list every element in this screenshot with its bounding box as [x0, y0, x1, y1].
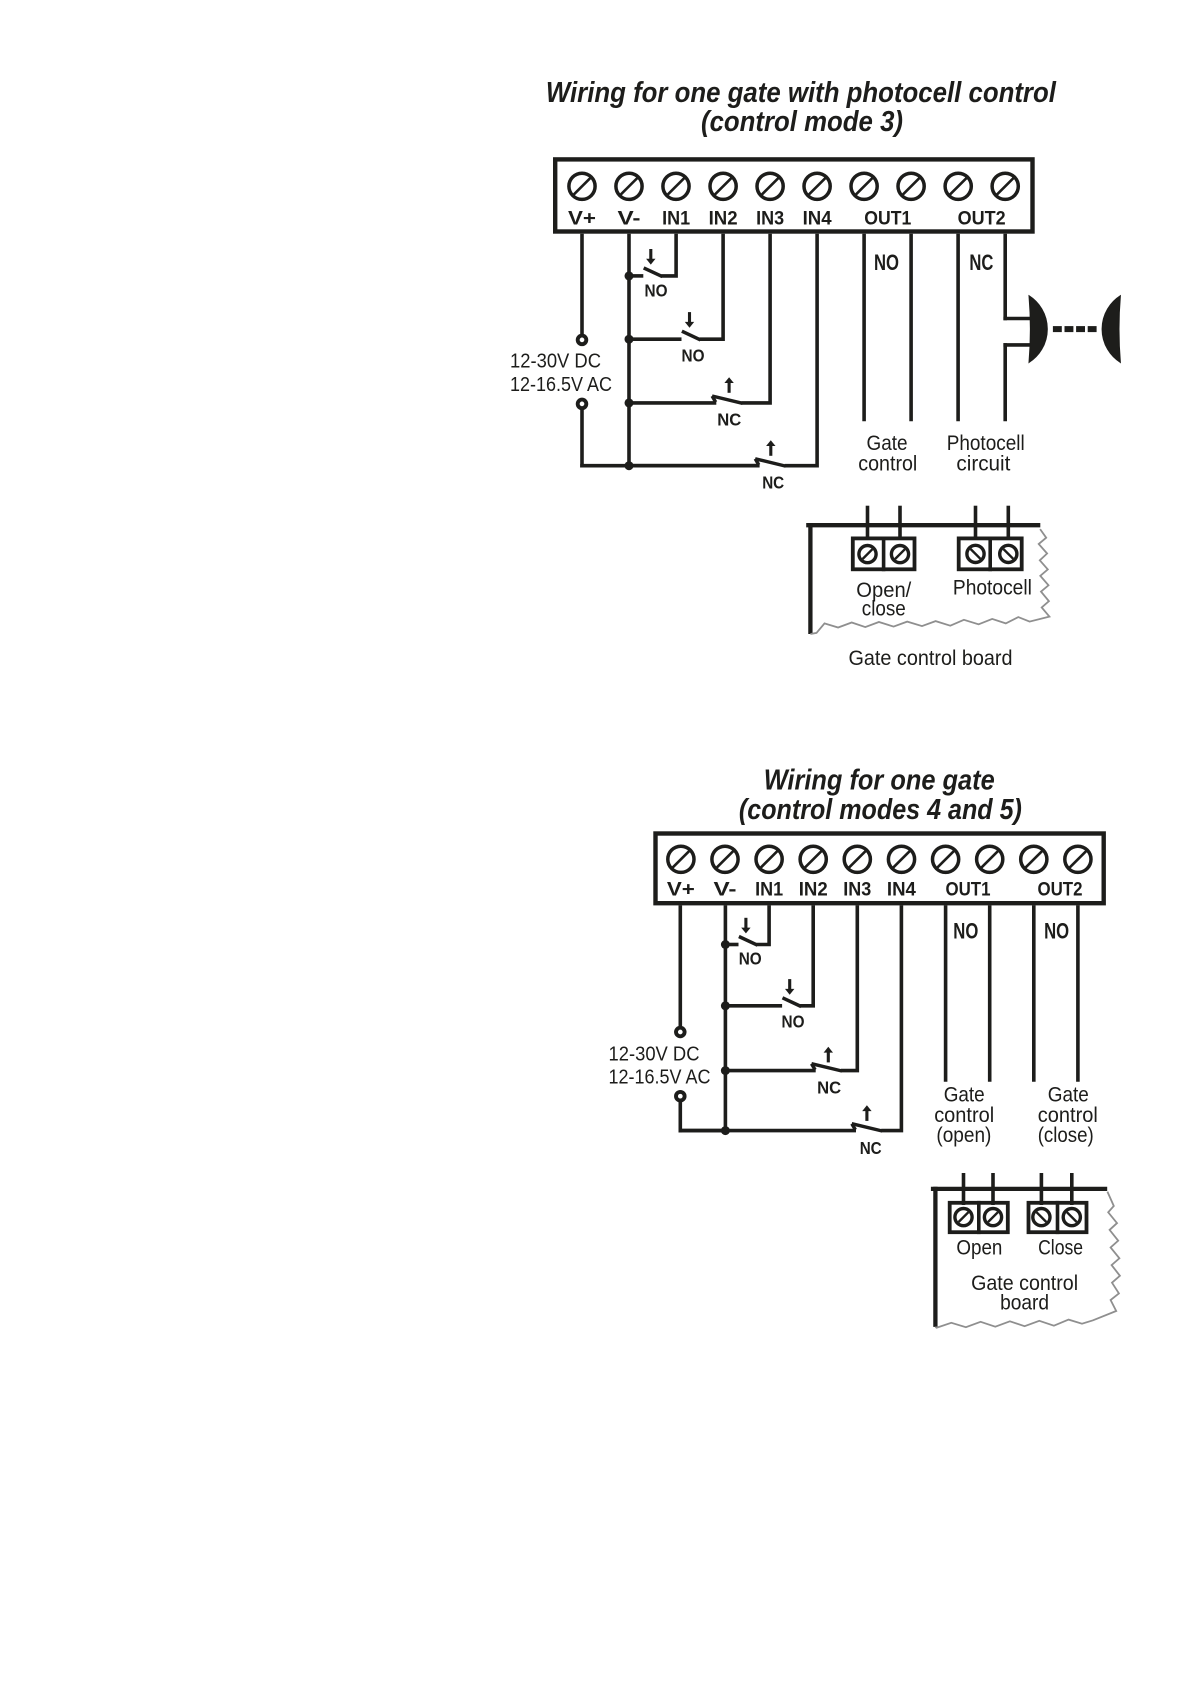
svg-text:OUT1: OUT1 [864, 208, 911, 230]
screw terminal V+ [569, 173, 595, 199]
svg-text:Gate control board: Gate control board [849, 646, 1013, 670]
wire stub Open b (J2) [991, 1173, 995, 1205]
svg-text:circuit: circuit [956, 451, 1010, 475]
svg-text:Open: Open [956, 1236, 1002, 1260]
gate control board outline (bottom) [931, 1187, 1107, 1191]
wire OUT2-a to photocell circuit [956, 234, 960, 422]
svg-text:NC: NC [969, 250, 993, 275]
junction node B2 [721, 1001, 730, 1010]
screw terminal IN3 (J2) [844, 846, 870, 872]
svg-text:IN4: IN4 [803, 208, 832, 230]
svg-text:12-16.5V AC: 12-16.5V AC [609, 1066, 711, 1089]
switch S8 NC (bottom rail to IN4, J2) [679, 1129, 857, 1133]
wire OUT2-a (J2) [1032, 905, 1036, 1081]
wire V- bus [627, 234, 631, 468]
wire bottom rail (V+ to NC switch S4) [580, 464, 759, 468]
svg-text:NC: NC [717, 410, 741, 430]
svg-text:NO: NO [682, 346, 705, 366]
svg-text:IN2: IN2 [709, 208, 738, 230]
wire bottom rail (J2) [679, 1129, 728, 1133]
wire stub Close b (J2) [1070, 1173, 1074, 1205]
svg-text:NO: NO [953, 919, 978, 944]
photocell beam (dashed) [1053, 326, 1062, 332]
svg-text:OUT1: OUT1 [946, 879, 991, 901]
wire stub Open/close a [866, 506, 870, 540]
junction node B3 [721, 1066, 730, 1075]
photocell receiver lens [1102, 296, 1120, 363]
screw terminal OUT1-b [898, 173, 924, 199]
switch S1 NO (V- to IN1) [629, 274, 643, 278]
board terminal pair Close (J2) [1029, 1203, 1087, 1232]
wire power - down to bottom rail [580, 408, 584, 468]
svg-text:NO: NO [739, 948, 762, 968]
svg-text:IN3: IN3 [843, 879, 871, 901]
screw terminal IN4 (J2) [888, 846, 914, 872]
junction node B4 [721, 1126, 730, 1135]
svg-text:NO: NO [874, 250, 899, 275]
svg-text:Close: Close [1038, 1236, 1083, 1260]
svg-text:(close): (close) [1038, 1123, 1094, 1147]
gate control board torn edge (bottom) [935, 1192, 1120, 1328]
wire OUT2-b lower segment [1003, 343, 1007, 421]
arrow S8 push-to-open [865, 1110, 868, 1121]
screw terminal OUT2-a (J2) [1021, 846, 1047, 872]
switch S7 NC (V- to IN3, J2) [725, 1069, 815, 1073]
screw terminal V- (J2) [712, 846, 738, 872]
svg-text:V+: V+ [667, 879, 695, 901]
svg-text:NO: NO [645, 280, 668, 300]
power terminal - (J2) [676, 1092, 685, 1101]
gate control board torn edge [810, 529, 1049, 634]
svg-text:NC: NC [762, 472, 784, 492]
junction node A2 [625, 335, 634, 344]
svg-text:board: board [1000, 1291, 1049, 1315]
arrow S5 push-to-close [744, 918, 747, 929]
wire OUT1-b (J2) [988, 905, 992, 1081]
screw terminal V+ (J2) [668, 846, 694, 872]
switch S6 NO (V- to IN2, J2) [725, 1004, 782, 1008]
wire stub Photocell b [1006, 506, 1010, 540]
svg-text:12-16.5V AC: 12-16.5V AC [510, 373, 612, 396]
screw terminal OUT1-a (J2) [933, 846, 959, 872]
screw terminal OUT1-a [851, 173, 877, 199]
screw terminal IN1 [663, 173, 689, 199]
svg-text:close: close [862, 596, 906, 620]
wire V- bus (J2) [724, 905, 728, 1132]
board terminal pair Photocell [959, 538, 1022, 569]
terminal block J2 [656, 834, 1104, 904]
junction node A4 [625, 461, 634, 470]
gate control board outline (top) [806, 523, 1040, 527]
switch S5 NO (V- to IN1, J2) [725, 943, 738, 947]
switch S2 NO (V- to IN2) [629, 337, 682, 341]
svg-text:V-: V- [714, 879, 737, 901]
wire stub to photocell TX lower [1003, 343, 1031, 347]
wire OUT2-b upper segment [1003, 234, 1007, 321]
svg-text:Wiring for one gate with photo: Wiring for one gate with photocell contr… [546, 77, 1057, 109]
wire OUT1-b to gate control [909, 234, 913, 422]
wire stub to photocell TX upper [1003, 317, 1031, 321]
svg-text:Photocell: Photocell [953, 576, 1032, 600]
screw terminal OUT2-b [992, 173, 1018, 199]
svg-text:IN1: IN1 [662, 208, 690, 230]
svg-text:12-30V DC: 12-30V DC [609, 1042, 700, 1065]
svg-text:Wiring for one gate: Wiring for one gate [764, 764, 995, 796]
svg-text:(control modes 4 and 5): (control modes 4 and 5) [739, 794, 1022, 826]
power terminal + (J2) [676, 1028, 685, 1037]
wire V+ to power terminal [580, 234, 584, 336]
power terminal - (open circle) [578, 400, 587, 409]
svg-text:NO: NO [782, 1012, 805, 1032]
svg-text:(open): (open) [936, 1123, 991, 1147]
wire stub Open/close b [898, 506, 902, 540]
svg-text:NC: NC [860, 1138, 882, 1158]
svg-text:V+: V+ [568, 208, 596, 230]
junction node B1 [721, 940, 730, 949]
wire OUT2-b (J2) [1076, 905, 1080, 1081]
wire OUT1-a (J2) [944, 905, 948, 1081]
screw terminal IN4 [804, 173, 830, 199]
screw terminal IN2 (J2) [800, 846, 826, 872]
screw terminal OUT1-b (J2) [977, 846, 1003, 872]
board terminal pair Open/close [853, 538, 915, 569]
wire stub Open a (J2) [962, 1173, 966, 1205]
switch S4 NC (bottom rail to IN4) [629, 464, 759, 468]
screw terminal IN1 (J2) [756, 846, 782, 872]
arrow S7 push-to-open [827, 1052, 830, 1063]
screw terminal OUT2-b (J2) [1065, 846, 1091, 872]
svg-text:IN2: IN2 [799, 879, 828, 901]
arrow S6 push-to-close [788, 979, 791, 990]
svg-text:IN4: IN4 [887, 879, 916, 901]
arrow S4 push-to-open [769, 445, 772, 456]
junction node A3 [625, 398, 634, 407]
wire power - down to bottom rail (J2) [678, 1100, 682, 1132]
screw terminal OUT2-a [945, 173, 971, 199]
photocell transmitter lens [1029, 296, 1047, 363]
svg-text:(control mode 3): (control mode 3) [701, 106, 903, 138]
svg-text:IN3: IN3 [756, 208, 784, 230]
screw terminal IN2 [710, 173, 736, 199]
wire V+ to power terminal (J2) [678, 905, 682, 1028]
switch S3 NC (V- to IN3) [629, 401, 716, 405]
svg-text:OUT2: OUT2 [1038, 879, 1083, 901]
svg-text:OUT2: OUT2 [958, 208, 1006, 230]
wire stub Close a (J2) [1040, 1173, 1044, 1205]
board terminal pair Open (J2) [950, 1203, 1008, 1232]
svg-text:IN1: IN1 [755, 879, 783, 901]
power terminal + (open circle) [578, 336, 587, 345]
screw terminal IN3 [757, 173, 783, 199]
arrow S2 push-to-close [688, 312, 691, 323]
arrow S1 push-to-close [649, 249, 652, 260]
arrow S3 push-to-open [728, 382, 731, 393]
wire OUT1-a to gate control [862, 234, 866, 422]
svg-text:12-30V DC: 12-30V DC [510, 350, 601, 373]
svg-text:control: control [858, 451, 917, 475]
svg-text:NC: NC [817, 1077, 841, 1097]
svg-text:NO: NO [1044, 919, 1069, 944]
terminal block J1 [555, 159, 1032, 231]
screw terminal V- [616, 173, 642, 199]
junction node A1 [625, 271, 634, 280]
svg-text:V-: V- [618, 208, 641, 230]
wire stub Photocell a [974, 506, 978, 540]
